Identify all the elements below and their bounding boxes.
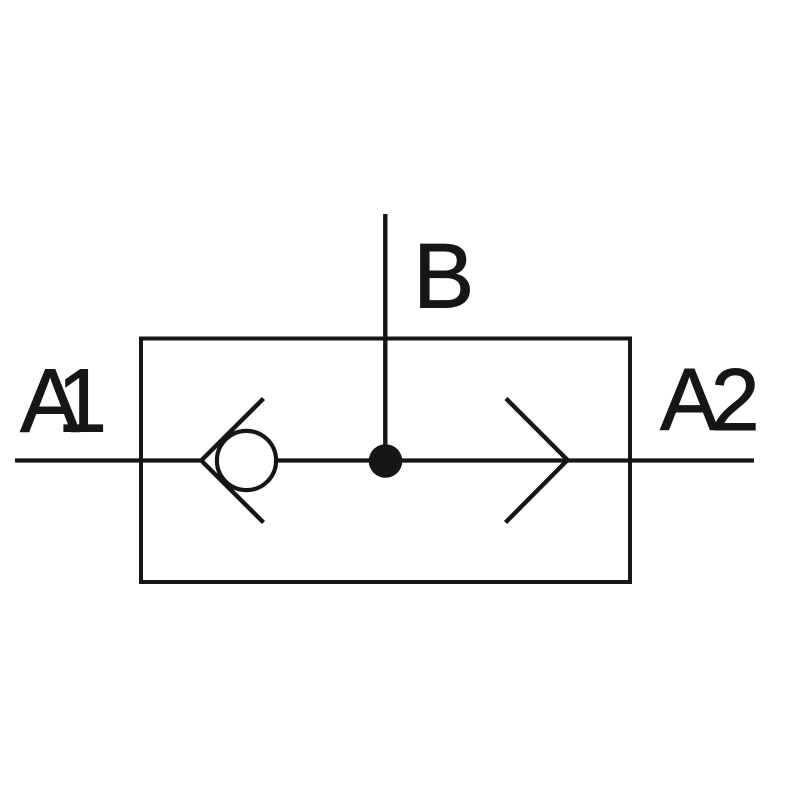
svg-text:B: B <box>413 226 474 328</box>
junction node (filled dot) <box>369 444 403 478</box>
wire: port B pilot line (vertical) <box>383 214 387 461</box>
flow direction arrow (chevron toward A2) <box>506 399 568 523</box>
valve body (rectangle enclosure) <box>141 339 630 583</box>
svg-text:A2: A2 <box>660 350 756 449</box>
check valve poppet ball (circle) <box>217 431 276 490</box>
wire: port A1 line (left horizontal segment) <box>15 458 203 462</box>
wire: port A2 line (right horizontal segment) <box>277 458 754 462</box>
check valve V-seat <box>201 399 263 523</box>
